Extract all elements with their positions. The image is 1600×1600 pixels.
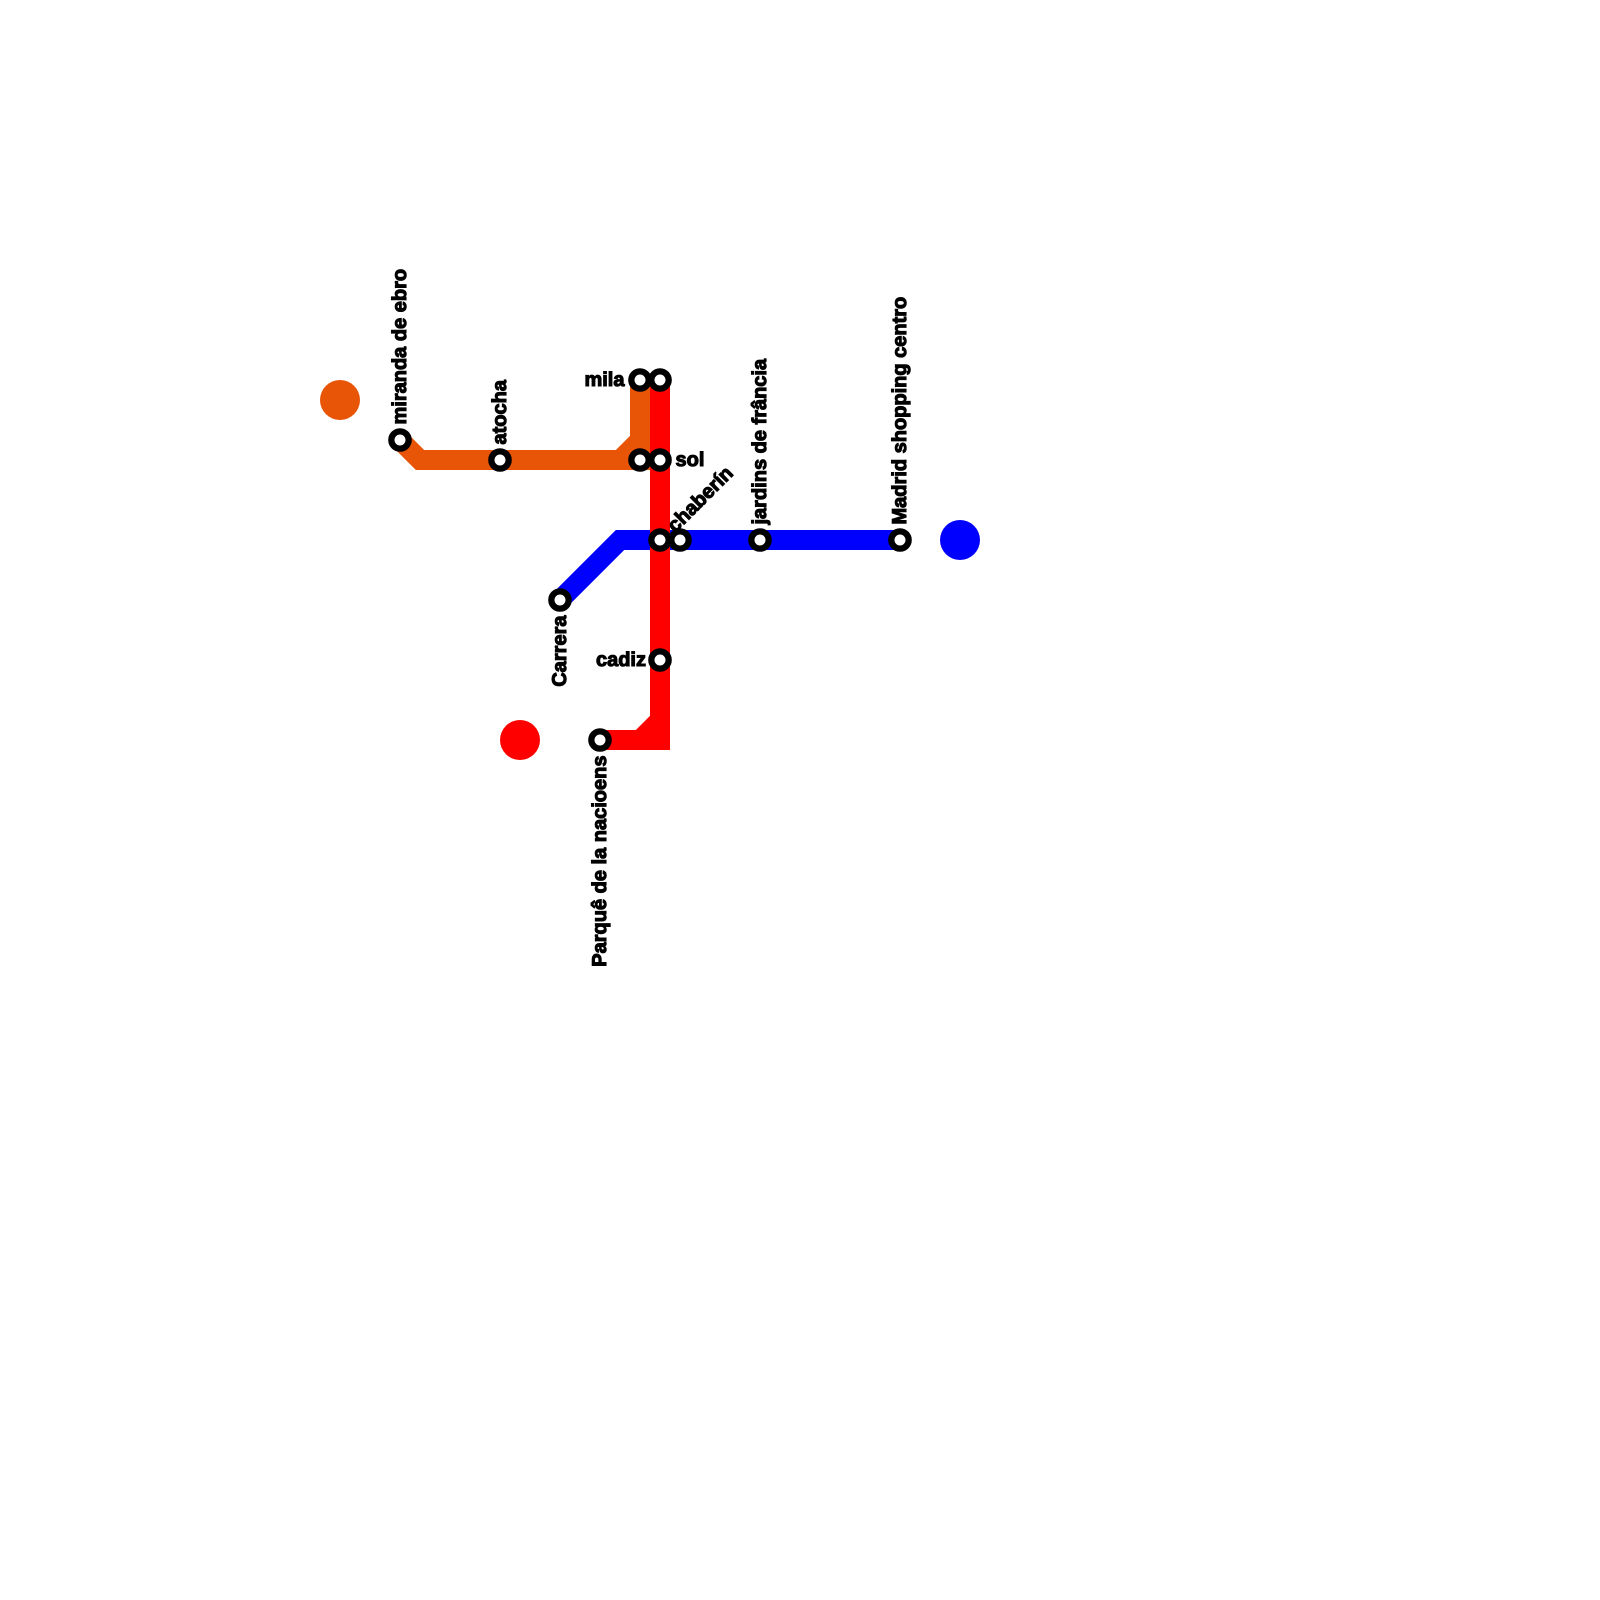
- svg-text:mila: mila: [584, 369, 625, 391]
- svg-text:cadiz: cadiz: [596, 649, 646, 671]
- svg-text:Carrera: Carrera: [549, 615, 571, 687]
- svg-text:Madrid shopping centro: Madrid shopping centro: [889, 297, 911, 525]
- svg-text:atocha: atocha: [489, 379, 511, 444]
- svg-text:Parquê de la nacioens: Parquê de la nacioens: [589, 756, 611, 967]
- svg-text:sol: sol: [676, 449, 705, 471]
- svg-text:miranda de ebro: miranda de ebro: [389, 269, 411, 425]
- svg-text:jardins de frância: jardins de frância: [749, 358, 771, 525]
